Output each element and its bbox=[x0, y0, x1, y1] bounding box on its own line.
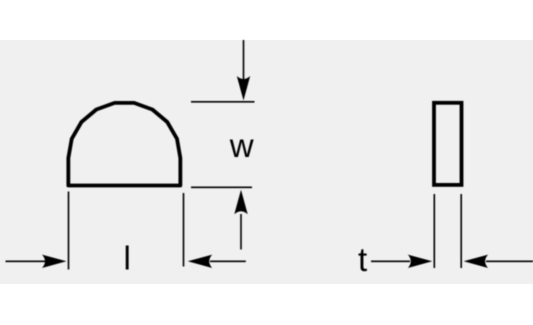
dimension l: right extension line bbox=[183, 193, 185, 267]
dimension w: lower leader line with up arrow bbox=[240, 214, 242, 250]
key side view (thin rectangle) bbox=[434, 103, 462, 185]
dimension w: top extension line bbox=[191, 101, 255, 103]
svg-text:t: t bbox=[358, 241, 367, 278]
dimension w: upper leader line with down arrow bbox=[243, 40, 245, 80]
key profile plan view (dome) bbox=[68, 103, 180, 186]
dimension t: left leader with right arrow bbox=[371, 260, 410, 262]
background panel bbox=[0, 40, 533, 284]
dimension t: right leader with left arrow bbox=[486, 260, 533, 262]
svg-text:l: l bbox=[124, 240, 131, 277]
dimension l: right leader with left arrow bbox=[210, 260, 246, 262]
dimension l: left leader with right arrow bbox=[6, 260, 46, 262]
dimension w: bottom extension line bbox=[191, 186, 252, 188]
dimension t: left extension line bbox=[433, 194, 435, 268]
dimension t: right extension line bbox=[460, 194, 462, 268]
svg-text:w: w bbox=[229, 127, 254, 164]
dimension l: left extension line bbox=[68, 192, 70, 270]
